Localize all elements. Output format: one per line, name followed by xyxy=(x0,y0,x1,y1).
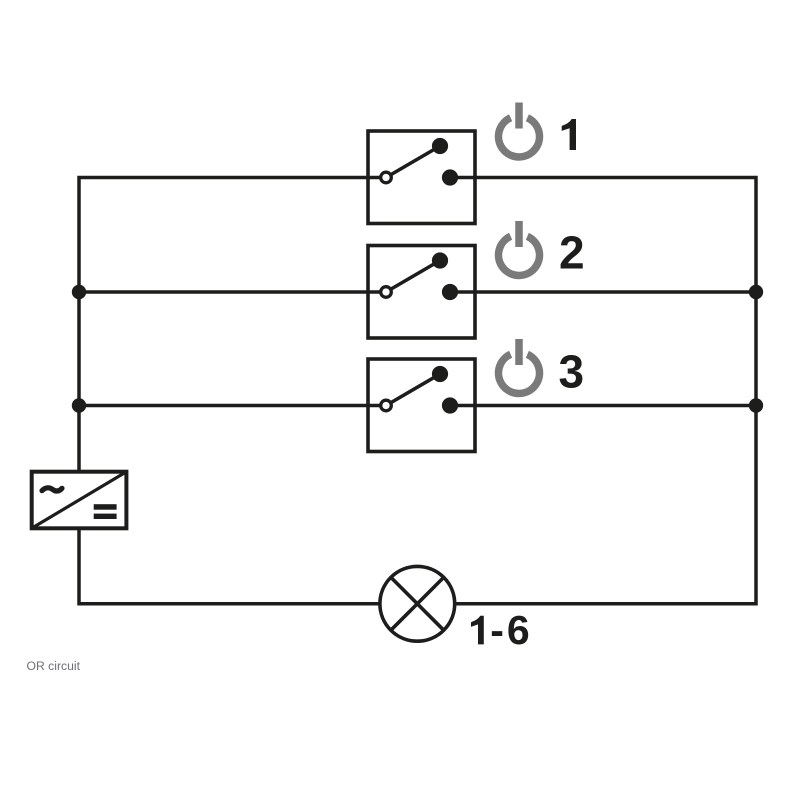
wire: row 3 left segment xyxy=(79,404,380,408)
power supply U1 diagonal xyxy=(32,472,127,529)
label 3 xyxy=(559,346,585,398)
power button icon 3 (ring) xyxy=(499,339,540,393)
switch S3 output contact dot xyxy=(442,397,458,413)
switch S1 pivot (open circle) xyxy=(381,172,392,183)
switch S1 output contact dot xyxy=(442,169,458,185)
power button icon 1 (ring) xyxy=(498,103,539,157)
svg-text:OR circuit: OR circuit xyxy=(27,659,81,673)
lamp E1 cross line 1 xyxy=(391,577,444,630)
junction: right rail row 2 xyxy=(749,285,763,299)
wire: row 2 right segment xyxy=(450,290,756,294)
wire: row 2 left segment xyxy=(79,290,380,294)
switch S1 lever xyxy=(386,146,440,178)
power supply U1 AC tilde symbol xyxy=(42,488,62,491)
svg-text:2: 2 xyxy=(559,227,585,279)
junction: right rail row 3 xyxy=(749,398,763,412)
label 2 xyxy=(559,227,585,279)
switch S1 box xyxy=(368,131,475,224)
wire: left rail + top row left segment xyxy=(79,178,380,472)
switch S3 upper contact dot xyxy=(432,366,448,382)
switch S2 lever xyxy=(386,261,440,293)
switch S2 upper contact dot xyxy=(432,252,448,268)
label 1-6 xyxy=(471,607,533,653)
junction: left rail row 3 xyxy=(72,398,86,412)
label 1 xyxy=(562,119,576,150)
caption OR circuit xyxy=(27,659,81,673)
lamp E1 cross line 2 xyxy=(391,577,444,630)
switch S2 pivot (open circle) xyxy=(381,287,392,298)
switch S3 lever xyxy=(386,374,440,406)
wire: row 3 right segment xyxy=(450,404,756,408)
switch S3 box xyxy=(368,359,475,452)
svg-text:-6: -6 xyxy=(490,607,532,653)
power supply U1 DC equals symbol xyxy=(94,504,117,519)
lamp E1 (circle) xyxy=(380,566,455,641)
switch S2 output contact dot xyxy=(442,284,458,300)
svg-text:3: 3 xyxy=(559,346,585,398)
power supply U1 (AC/DC converter) box xyxy=(32,472,127,529)
wire: top row right segment + right rail + bottom right segment xyxy=(450,178,756,604)
switch S1 upper contact dot xyxy=(432,138,448,154)
junction: left rail row 2 xyxy=(72,285,86,299)
switch S3 pivot (open circle) xyxy=(381,400,392,411)
wire: power supply to bottom wire left segment xyxy=(79,528,381,604)
power button icon 2 (ring) xyxy=(499,221,540,275)
switch S2 box xyxy=(368,246,475,339)
